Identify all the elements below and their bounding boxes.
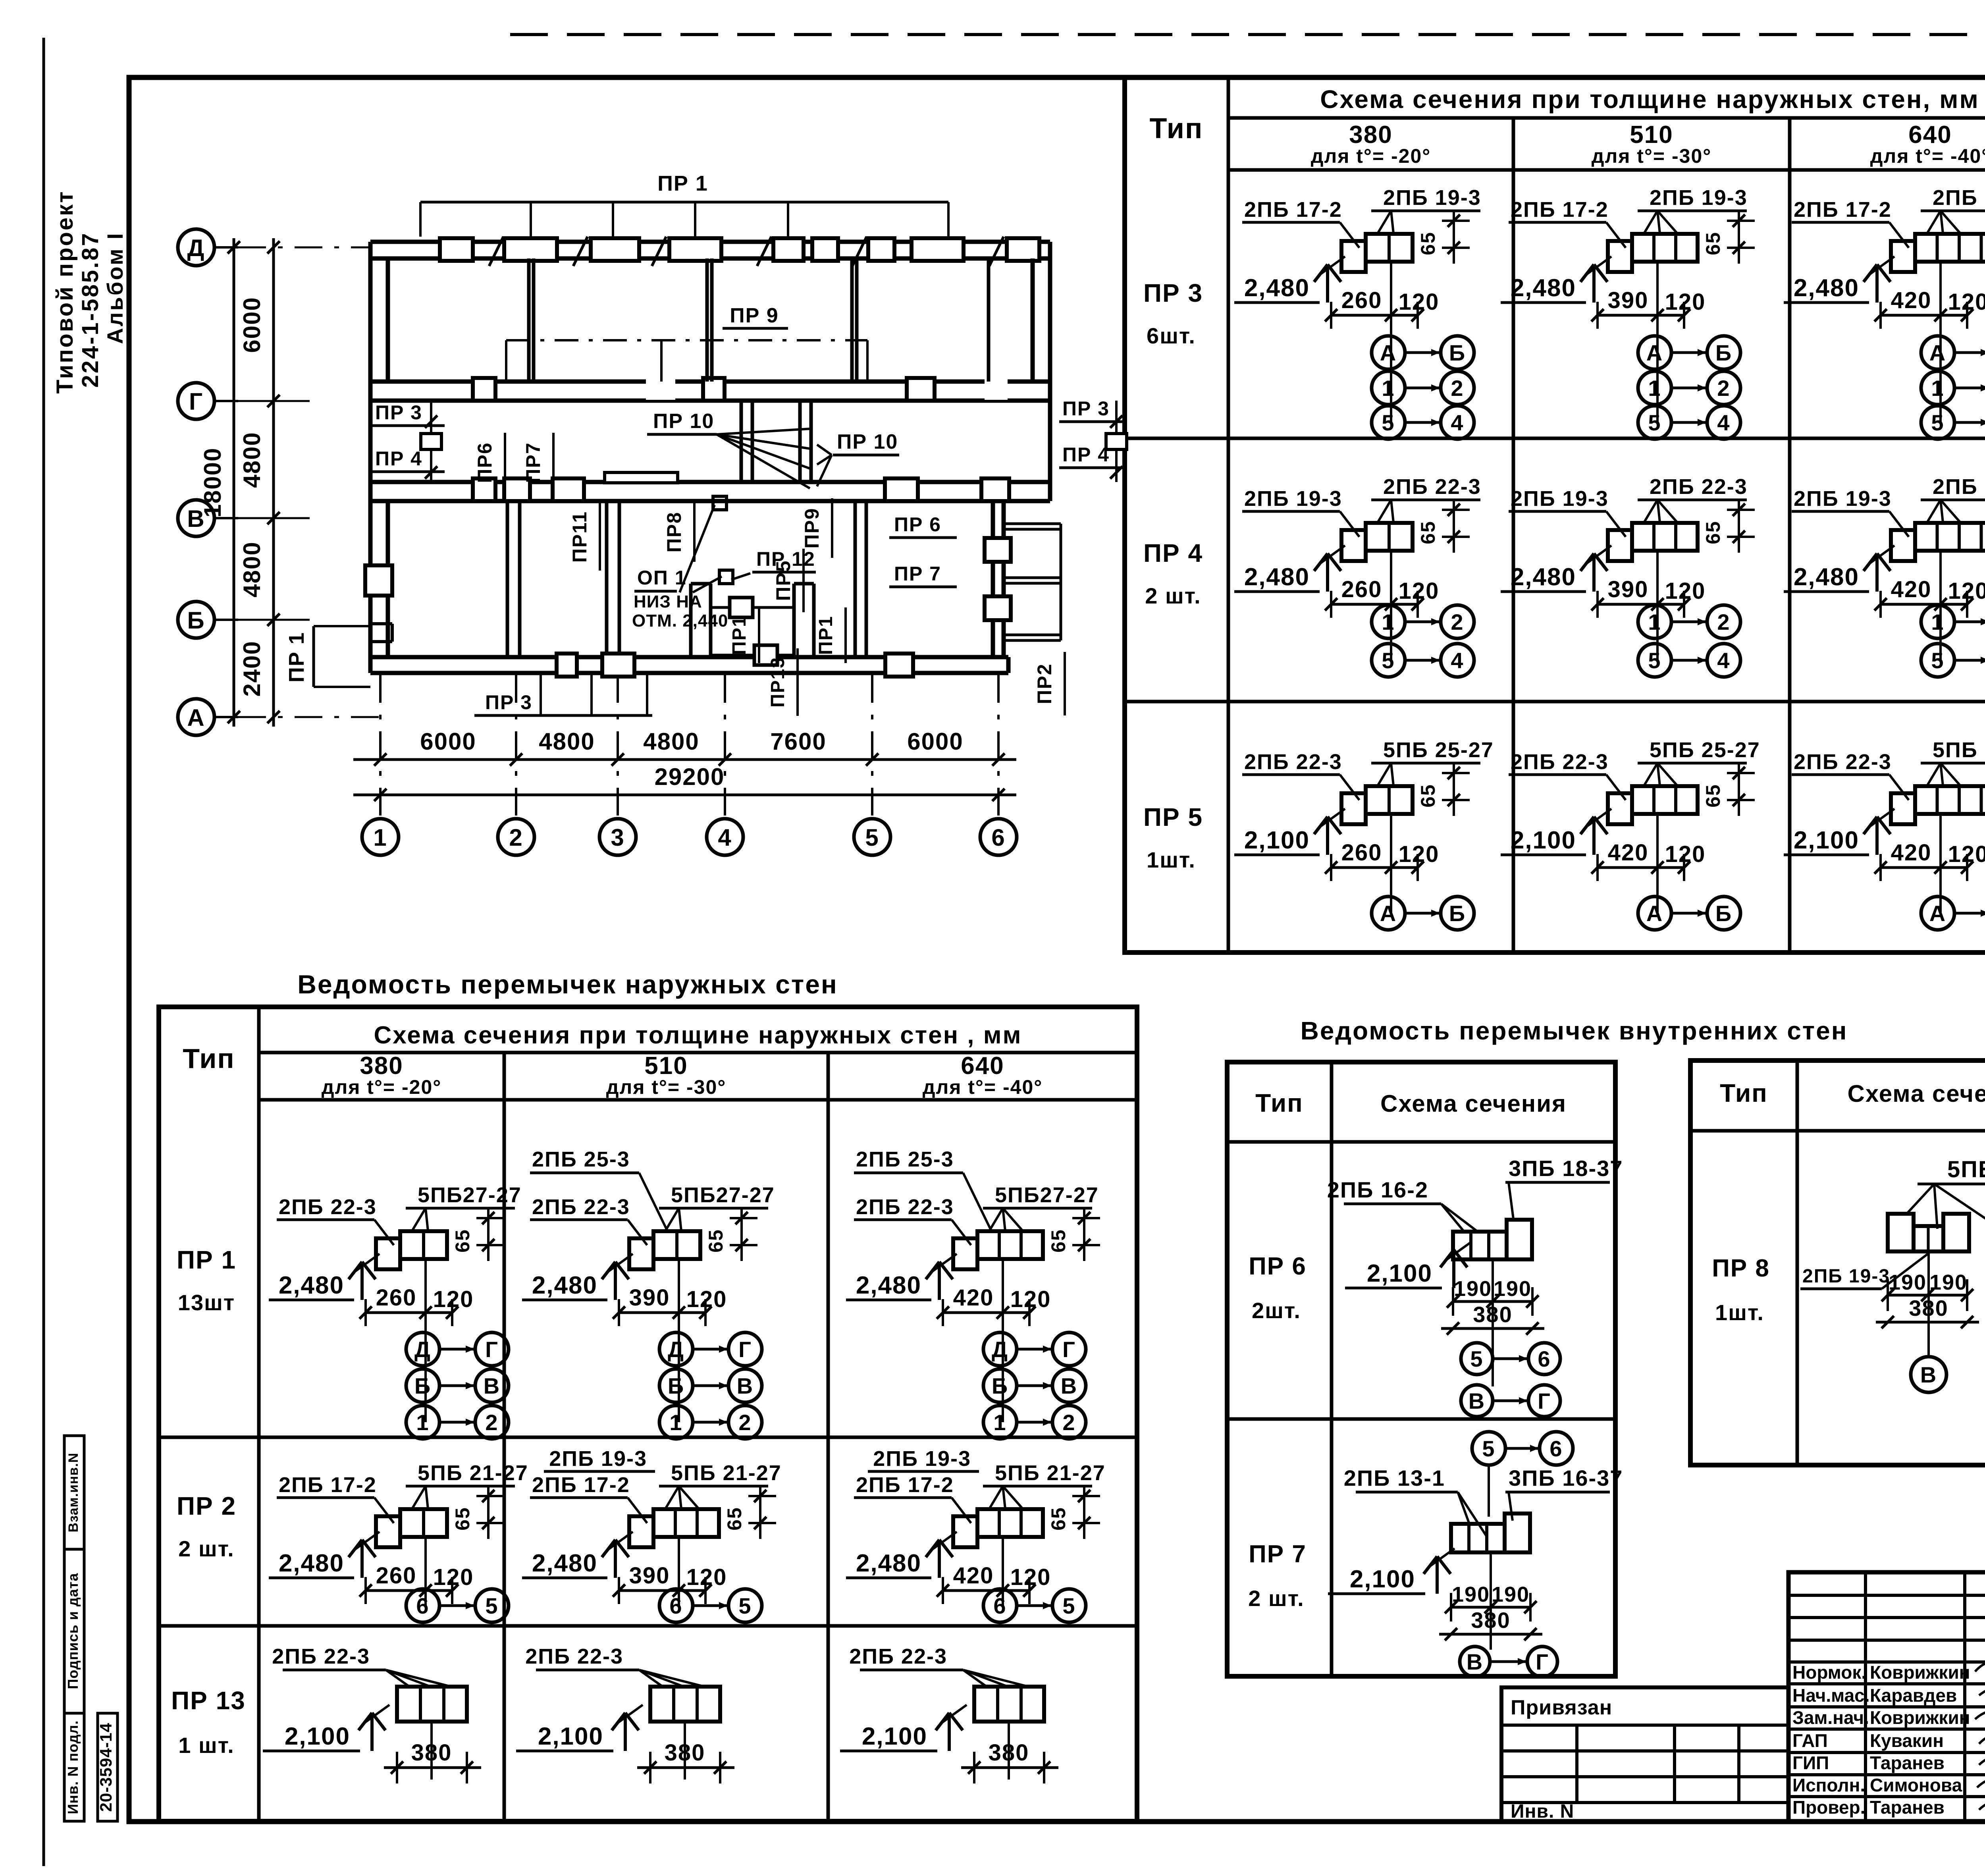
svg-text:120: 120	[1948, 841, 1985, 867]
side column: Взам. инв. N	[64, 1436, 84, 1549]
svg-text:Ведомость перемычек внутре: Ведомость перемычек внутренних стен	[1301, 1016, 1848, 1045]
stem	[424, 1537, 427, 1606]
svg-text:420: 420	[1891, 287, 1932, 313]
svg-text:Б: Б	[992, 1373, 1008, 1398]
elevation 2,100	[1784, 809, 1894, 855]
svg-text:2,480: 2,480	[856, 1550, 921, 1577]
stem	[1656, 262, 1659, 422]
cell ПР4 / 260	[1234, 475, 1481, 677]
svg-text:65: 65	[1047, 1507, 1070, 1531]
svg-text:2ПБ 19-3: 2ПБ 19-3	[1383, 186, 1481, 210]
svg-text:6000: 6000	[907, 728, 963, 755]
svg-text:2,100: 2,100	[538, 1723, 603, 1750]
label 2ПБ 22-3	[530, 1195, 647, 1245]
windows right wall	[1004, 524, 1061, 640]
svg-text:ПР 7: ПР 7	[1249, 1541, 1307, 1568]
svg-text:260: 260	[1341, 287, 1382, 313]
svg-text:Нормок.: Нормок.	[1792, 1662, 1866, 1683]
svg-text:4: 4	[1717, 648, 1730, 673]
svg-text:1: 1	[1648, 376, 1661, 401]
axis link Б-В	[659, 1369, 762, 1402]
svg-text:2ПБ 22-3: 2ПБ 22-3	[532, 1195, 630, 1219]
svg-text:2: 2	[1717, 609, 1730, 634]
svg-text:120: 120	[433, 1564, 474, 1590]
svg-text:ПР 4: ПР 4	[1062, 443, 1110, 466]
svg-text:4800: 4800	[539, 728, 595, 755]
label ПР4 (right)	[1059, 443, 1124, 468]
axis В	[1911, 1357, 1946, 1392]
axis link 1-2	[659, 1406, 762, 1439]
lintel box on top wall	[440, 238, 473, 261]
svg-text:2ПБ 17-2: 2ПБ 17-2	[279, 1473, 377, 1497]
cell ПР5 / 260	[1234, 738, 1494, 930]
svg-text:А: А	[187, 704, 205, 731]
label ПР4 (left)	[369, 447, 445, 472]
svg-text:Коврижкин: Коврижкин	[1870, 1662, 1970, 1683]
elevation 2,480	[1501, 546, 1611, 592]
label ПР10 (right) + fan	[817, 430, 899, 486]
axis link 5-4	[1372, 406, 1474, 439]
svg-text:ПР 1: ПР 1	[657, 172, 708, 195]
svg-text:Зам.нач.: Зам.нач.	[1792, 1707, 1869, 1728]
label ПР1 (rotated, lower a)	[729, 607, 759, 663]
axis extension line	[214, 517, 310, 519]
lintel box on top wall	[773, 238, 804, 261]
dim 420|120	[1874, 576, 1985, 618]
svg-text:5: 5	[1931, 410, 1944, 435]
svg-text:120: 120	[1010, 1564, 1051, 1590]
svg-text:2ПБ 25-3: 2ПБ 25-3	[532, 1147, 630, 1171]
svg-text:5ПБ 21-27: 5ПБ 21-27	[418, 1461, 528, 1485]
header Тип / Схема сечения (ПР8)	[1720, 1079, 1985, 1107]
upper-right outer wall	[1033, 242, 1050, 501]
axis dash line Д	[238, 247, 371, 249]
tab above wall В	[605, 472, 678, 483]
svg-text:В: В	[1920, 1362, 1937, 1387]
svg-text:ПР 3: ПР 3	[1062, 397, 1110, 420]
svg-text:420: 420	[953, 1563, 994, 1589]
corridor bottom wall (axis В)	[370, 482, 1050, 501]
svg-text:4: 4	[718, 824, 732, 851]
svg-text:2,480: 2,480	[1511, 563, 1576, 591]
elevation 2,480	[1784, 256, 1894, 303]
label ПР9 (rotated, lower)	[801, 498, 832, 558]
svg-text:2,100: 2,100	[862, 1723, 927, 1750]
label 2ПБ 22-3	[1371, 475, 1481, 523]
label 2ПБ 19-3	[1638, 186, 1748, 233]
label 2ПБ 17-2	[277, 1473, 394, 1523]
svg-text:А: А	[1929, 340, 1946, 365]
titleblock row ГИП Таранев	[1792, 1753, 1945, 1773]
svg-text:5ПБ27-27: 5ПБ27-27	[418, 1183, 522, 1207]
table: схема сечения (наружные стены, верх) grid	[1125, 77, 1985, 952]
stair well walls in corridor	[741, 401, 811, 482]
svg-text:Исполн.: Исполн.	[1792, 1775, 1865, 1795]
title: Ведомость перемычек наружных стен	[297, 970, 838, 999]
header Тип	[1150, 113, 1203, 145]
label 5ПБ27-27	[406, 1183, 522, 1231]
dim 260|120	[359, 1285, 474, 1326]
lintel blocks	[1608, 523, 1698, 561]
dim 390|120	[1591, 287, 1706, 329]
svg-text:2: 2	[509, 824, 523, 851]
bracket ПР1 over top wall	[420, 172, 948, 237]
svg-text:ПР 4: ПР 4	[375, 447, 422, 470]
svg-text:2,480: 2,480	[1244, 274, 1310, 302]
svg-text:65: 65	[1702, 231, 1724, 255]
svg-text:120: 120	[1665, 578, 1706, 604]
axis dash line А	[238, 716, 384, 718]
svg-text:260: 260	[376, 1285, 417, 1311]
svg-text:640: 640	[961, 1052, 1004, 1080]
svg-text:Симонова: Симонова	[1870, 1775, 1962, 1795]
axis circle Б	[178, 602, 238, 638]
svg-text:190: 190	[1929, 1271, 1968, 1294]
lintel box on bottom wall	[557, 654, 577, 677]
dim 380	[1876, 1321, 1979, 1324]
svg-text:2ПБ 17-2: 2ПБ 17-2	[532, 1473, 630, 1497]
cell ПР1 / 260	[269, 1183, 522, 1439]
dim 380	[637, 1766, 734, 1769]
svg-text:1: 1	[669, 1410, 682, 1435]
cell ПР13 / 380	[263, 1645, 481, 1783]
elevation 2,480	[1234, 256, 1345, 303]
svg-text:65: 65	[451, 1507, 474, 1531]
svg-text:120: 120	[433, 1286, 474, 1312]
axis link 1-2	[1921, 371, 1985, 405]
svg-text:ПР 5: ПР 5	[1143, 803, 1203, 831]
svg-text:120: 120	[1948, 289, 1985, 315]
svg-text:ПР 7: ПР 7	[894, 563, 941, 585]
svg-text:Подпись и дата: Подпись и дата	[65, 1573, 81, 1689]
cell ПР3 / 390	[1501, 186, 1755, 439]
row label ПР8 1шт	[1712, 1255, 1770, 1325]
dim 65	[705, 1209, 757, 1261]
subheader 640 / для t=-40 (низ)	[923, 1052, 1043, 1098]
svg-text:1: 1	[993, 1410, 1006, 1435]
svg-text:А: А	[1929, 901, 1946, 926]
svg-text:Тип: Тип	[1255, 1089, 1303, 1117]
row label ПР6 2шт	[1249, 1253, 1307, 1323]
svg-text:390: 390	[1608, 576, 1649, 602]
svg-text:2,480: 2,480	[1511, 274, 1576, 302]
dim 65	[723, 1487, 776, 1539]
cell ПР8 scheme	[1800, 1157, 1985, 1392]
subheader 510 / для t=-30 (низ)	[606, 1052, 727, 1098]
elevation 2,480	[522, 1254, 633, 1300]
label ПР8 (rotated)	[663, 502, 694, 562]
label ПР8 horizontal leader	[885, 491, 925, 492]
axis circle 6	[980, 675, 1017, 855]
svg-text:Г: Г	[738, 1337, 752, 1362]
axis link 6-5	[659, 1589, 762, 1622]
label 5ПБ 25-27	[1921, 738, 1985, 786]
svg-text:5ПБ27-27: 5ПБ27-27	[671, 1183, 775, 1207]
svg-text:224-1-585.87: 224-1-585.87	[77, 231, 103, 388]
axis link А-Б	[1638, 897, 1740, 930]
subheader 640 / для t=-40	[1870, 121, 1985, 167]
stem	[1939, 551, 1942, 660]
cell ПР13 / 380	[840, 1645, 1058, 1783]
axis link 1-2	[1372, 371, 1474, 405]
svg-text:6: 6	[416, 1593, 429, 1618]
dim 190|190	[1453, 1300, 1532, 1303]
svg-text:для t°= -20°: для t°= -20°	[322, 1076, 442, 1098]
dim 65	[1047, 1209, 1100, 1261]
cell ПР7 scheme	[1328, 1432, 1623, 1677]
lintel box on wall Г	[703, 378, 725, 401]
stem	[678, 1259, 680, 1422]
dim 65	[1047, 1487, 1100, 1539]
svg-text:1: 1	[1382, 609, 1395, 634]
svg-text:5ПБ 21-27: 5ПБ 21-27	[671, 1461, 782, 1485]
label 2ПБ 19-3	[1371, 186, 1481, 233]
stem	[424, 1259, 427, 1422]
lintel box on top wall	[1007, 238, 1039, 261]
svg-text:2ПБ 25-3: 2ПБ 25-3	[856, 1147, 954, 1171]
cell ПР3 / 260	[1234, 186, 1481, 439]
axis link Б-В	[983, 1369, 1086, 1402]
svg-text:390: 390	[629, 1285, 670, 1311]
row label ПР1 13шт	[177, 1246, 236, 1315]
svg-text:для t°= -20°: для t°= -20°	[1311, 145, 1431, 167]
cell ПР5 / 420	[1784, 738, 1985, 930]
svg-text:5ПБ 25-27: 5ПБ 25-27	[1383, 738, 1494, 762]
svg-text:2: 2	[1062, 1410, 1075, 1435]
svg-text:В: В	[1467, 1649, 1483, 1674]
side column: Инв. N подл.	[64, 1713, 84, 1821]
svg-text:Тип: Тип	[183, 1043, 235, 1074]
box Привязан	[1501, 1687, 1788, 1822]
svg-text:120: 120	[1399, 578, 1440, 604]
label 2ПБ 19-3	[1792, 487, 1909, 537]
svg-text:65: 65	[705, 1229, 727, 1253]
svg-text:65: 65	[1417, 784, 1439, 808]
label 2ПБ 22-3	[854, 1195, 971, 1245]
axis link 5-6	[1461, 1343, 1493, 1375]
svg-text:Схема сечения: Схема сечения	[1380, 1090, 1567, 1117]
axis circle В	[178, 500, 238, 536]
svg-text:Схема сечения: Схема сечения	[1848, 1080, 1985, 1107]
svg-text:190: 190	[1452, 1583, 1490, 1606]
axis circle 5	[854, 675, 890, 855]
lintel blocks	[376, 1509, 447, 1547]
label ПР2 (rotated, right)	[1033, 652, 1065, 715]
svg-text:6шт.: 6шт.	[1147, 323, 1196, 348]
table: внутренние стены ПР6/ПР7 grid	[1227, 1062, 1615, 1676]
subheader 380 / для t=-20	[1311, 121, 1431, 167]
svg-text:4800: 4800	[239, 432, 265, 488]
svg-text:5: 5	[1931, 648, 1944, 673]
svg-text:5ПБ 21-27: 5ПБ 21-27	[1947, 1157, 1985, 1182]
label 5ПБ 21-27	[983, 1461, 1106, 1509]
svg-text:Таранев: Таранев	[1870, 1797, 1945, 1818]
svg-text:65: 65	[723, 1507, 746, 1531]
svg-text:2,100: 2,100	[1244, 827, 1310, 854]
lintel blocks	[1888, 1214, 1914, 1251]
svg-text:2,100: 2,100	[1511, 827, 1576, 854]
svg-text:ГИП: ГИП	[1792, 1753, 1829, 1773]
svg-text:для t°= -40°: для t°= -40°	[923, 1076, 1043, 1098]
svg-text:190: 190	[1889, 1271, 1927, 1294]
svg-text:Взам.инв.N: Взам.инв.N	[66, 1453, 81, 1533]
svg-text:6: 6	[1538, 1346, 1551, 1371]
axis link 6-5	[983, 1589, 1086, 1622]
svg-text:2ПБ 17-2: 2ПБ 17-2	[856, 1473, 954, 1497]
label 5ПБ 21-27	[406, 1461, 528, 1509]
svg-text:2ПБ 17-2: 2ПБ 17-2	[1244, 198, 1342, 222]
lintel blocks	[629, 1509, 719, 1547]
lintel blocks	[376, 1231, 447, 1269]
axis circle А	[178, 699, 238, 735]
section tick	[573, 237, 588, 266]
svg-text:для t°= -30°: для t°= -30°	[606, 1076, 727, 1098]
svg-text:Б: Б	[1715, 901, 1732, 926]
row label ПР3 6шт	[1143, 279, 1203, 348]
svg-text:Б: Б	[668, 1373, 684, 1398]
svg-text:ПР1: ПР1	[815, 615, 836, 655]
titleblock row ГАП Кувакин	[1792, 1730, 1944, 1751]
svg-text:420: 420	[1891, 576, 1932, 602]
svg-text:4: 4	[1451, 410, 1464, 435]
svg-text:120: 120	[686, 1564, 727, 1590]
svg-text:20-3594-14: 20-3594-14	[96, 1723, 115, 1812]
svg-text:2ПБ 22-3: 2ПБ 22-3	[525, 1645, 623, 1668]
dim 65	[1417, 501, 1470, 553]
svg-text:для t°= -40°: для t°= -40°	[1870, 145, 1985, 167]
axis link 1-2	[1638, 371, 1740, 405]
cell ПР4 / 390	[1501, 475, 1755, 677]
lintel blocks	[1891, 523, 1985, 561]
sheet top edge (dashed)	[510, 33, 1985, 36]
svg-text:6: 6	[1549, 1436, 1563, 1461]
svg-text:ПР8: ПР8	[663, 511, 685, 552]
svg-text:Д: Д	[414, 1337, 431, 1362]
lintel blocks	[397, 1687, 467, 1722]
titleblock row Нач.мас. Каравдев	[1792, 1685, 1957, 1706]
dim 260|120	[1325, 287, 1439, 329]
lintel box on top wall	[669, 238, 721, 261]
svg-text:260: 260	[376, 1563, 417, 1589]
svg-text:Провер.: Провер.	[1792, 1797, 1865, 1818]
svg-text:Г: Г	[189, 388, 203, 415]
axis extension line	[214, 400, 310, 402]
bottom dim line segments	[353, 728, 1016, 766]
stem	[1656, 551, 1659, 660]
section tick	[852, 237, 867, 266]
svg-text:ПР 1: ПР 1	[285, 632, 308, 683]
svg-text:65: 65	[1702, 784, 1724, 808]
svg-text:2ПБ 22-3: 2ПБ 22-3	[1511, 750, 1609, 774]
svg-text:1: 1	[416, 1410, 429, 1435]
lintel box on top wall	[591, 238, 639, 261]
svg-text:ОП 1: ОП 1	[637, 567, 687, 589]
dim 190|190	[1888, 1294, 1967, 1297]
svg-text:380: 380	[665, 1740, 705, 1766]
axis circle Г	[178, 383, 238, 419]
svg-text:ПР 8: ПР 8	[1712, 1255, 1770, 1282]
svg-text:Б: Б	[1449, 340, 1466, 365]
dim 420|120	[937, 1563, 1051, 1604]
bottom wall (axis А side)	[370, 657, 1008, 673]
svg-text:2 шт.: 2 шт.	[178, 1536, 234, 1561]
svg-text:ПР2: ПР2	[1033, 663, 1056, 704]
svg-text:Б: Б	[414, 1373, 431, 1398]
lintel box on wall В	[885, 478, 918, 501]
svg-text:ПР 9: ПР 9	[730, 304, 779, 327]
svg-text:2ПБ 22-3: 2ПБ 22-3	[1650, 475, 1748, 499]
svg-text:510: 510	[1630, 121, 1673, 148]
titleblock row Нормок. Коврижкин	[1792, 1662, 1970, 1683]
header Тип / Схема сечения (ПР6)	[1255, 1089, 1567, 1117]
label 2ПБ 19-3	[1242, 487, 1359, 537]
svg-text:120: 120	[1665, 841, 1706, 867]
upper rooms inner bottom wall (axis Г)	[370, 382, 1050, 401]
label 2ПБ 22-3	[277, 1195, 394, 1245]
svg-text:2 шт.: 2 шт.	[1248, 1586, 1304, 1611]
label ПР3 (bottom)	[474, 675, 652, 715]
svg-text:2 шт.: 2 шт.	[1145, 583, 1201, 608]
svg-text:Альбом I: Альбом I	[102, 231, 127, 344]
dim 420|120	[1591, 840, 1706, 881]
label 2ПБ 22-3	[1921, 475, 1985, 523]
svg-text:Схема сечения при толщин: Схема сечения при толщине наружных стен …	[374, 1022, 1022, 1049]
label 5ПБ 21-27	[659, 1461, 782, 1509]
cell ПР2 / 420	[846, 1447, 1106, 1622]
leader ПР3/ПР4 left	[421, 401, 441, 482]
lintel box on left wall	[365, 565, 392, 596]
svg-text:ПР5: ПР5	[772, 560, 794, 601]
svg-text:29200: 29200	[655, 764, 725, 790]
outer wall left	[370, 242, 388, 673]
svg-text:Тип: Тип	[1720, 1079, 1768, 1107]
svg-text:2,480: 2,480	[279, 1272, 344, 1299]
axis link 6-5	[406, 1589, 509, 1622]
svg-text:5: 5	[1382, 648, 1395, 673]
label ПР10 (left) + fan	[647, 410, 810, 488]
axis link А-Б	[1372, 336, 1474, 369]
svg-text:190: 190	[1492, 1583, 1530, 1606]
elevation 2,100	[1234, 809, 1345, 855]
axis link А-Б	[1921, 897, 1985, 930]
dim 260|120	[359, 1563, 474, 1604]
cell ПР6 scheme	[1327, 1156, 1623, 1417]
svg-text:2ПБ 19-3: 2ПБ 19-3	[1802, 1266, 1890, 1287]
svg-text:4: 4	[1717, 410, 1730, 435]
svg-text:120: 120	[1399, 289, 1440, 315]
section tick	[652, 237, 666, 266]
label 5ПБ 25-27	[1638, 738, 1760, 786]
axis link 5-4	[1638, 406, 1740, 439]
svg-text:2400: 2400	[239, 640, 265, 696]
svg-text:ОТМ. 2,440: ОТМ. 2,440	[632, 611, 728, 630]
svg-text:510: 510	[644, 1052, 688, 1080]
svg-text:А: А	[1380, 340, 1397, 365]
svg-text:2ПБ 19-3: 2ПБ 19-3	[1794, 487, 1892, 511]
svg-text:5: 5	[485, 1593, 498, 1618]
svg-text:ПР11: ПР11	[569, 511, 591, 563]
cell ПР3 / 420	[1784, 186, 1985, 439]
right wall lower (outer)	[1048, 482, 1052, 501]
dim 260|120	[1325, 840, 1439, 881]
svg-text:4: 4	[1451, 648, 1464, 673]
svg-text:2: 2	[1451, 609, 1464, 634]
row label ПР4 2шт	[1143, 539, 1203, 608]
axis link 1-2	[1372, 605, 1474, 638]
sheet left edge	[42, 38, 45, 1866]
lintel box on wall В	[553, 478, 584, 501]
title: Ведомость перемычек внутренних стен	[1301, 1016, 1848, 1045]
